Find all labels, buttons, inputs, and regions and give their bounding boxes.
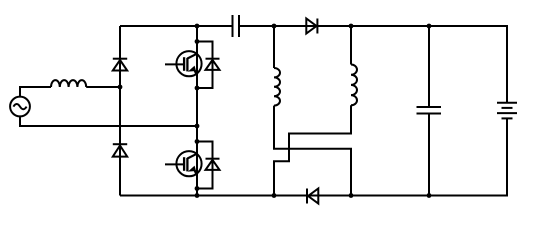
node: bottom rail / winding return right: [349, 193, 354, 198]
battery B1: [497, 102, 517, 104]
node: bottom rail / winding return left: [272, 193, 277, 198]
diode D4 (antiparallel of Q2): [206, 158, 220, 160]
node: top rail / winding L1: [272, 24, 277, 29]
wire: inductor to bridge node: [86, 86, 120, 88]
wire: Q1 freewheel branch: [197, 42, 213, 89]
diode D3 (antiparallel of Q1): [206, 58, 220, 60]
wire: ac source bottom lead to transistor leg: [20, 116, 197, 126]
node: Q2 emitter branch: [195, 186, 200, 191]
wire: left bridge leg (vertical): [119, 26, 121, 196]
node: Q2 collector branch: [195, 139, 200, 144]
wire: ac source top lead: [20, 87, 51, 97]
node: top rail / transistor leg: [195, 24, 200, 29]
diode D1 (upper left bridge): [113, 58, 127, 60]
capacitor C1 (series, top rail): [232, 15, 234, 37]
wire: transistor leg (vertical): [196, 26, 198, 196]
wire: Q2 freewheel branch: [197, 142, 213, 189]
capacitor C2 (output): [428, 26, 430, 107]
node: Q1 collector branch: [195, 39, 200, 44]
wire: top rail right segment: [239, 26, 507, 103]
inductor Lin (horizontal, 4 humps): [51, 80, 86, 87]
node: bottom rail / capacitor C2: [427, 193, 432, 198]
node: top rail / winding L2: [349, 24, 354, 29]
wire: bottom rail: [120, 118, 507, 195]
node: ac bottom / transistor leg: [195, 124, 200, 129]
ac source V1: [10, 97, 30, 117]
transistor Q2 (lower IGBT): [176, 151, 201, 176]
diode D6 (bottom rail, pointing left): [308, 189, 318, 204]
node: top rail / capacitor C2: [427, 24, 432, 29]
diode D2 (lower left bridge): [113, 143, 127, 145]
transistor Q1 (upper IGBT): [176, 51, 201, 76]
winding L2 (right vertical) with crossover to bottom left: [350, 26, 352, 65]
node: bridge left leg / ac top: [118, 85, 123, 90]
node: Q1 emitter branch: [195, 86, 200, 91]
winding L1 (left vertical) with crossover to bottom right: [273, 26, 275, 68]
node: transistor leg / bottom rail: [195, 193, 200, 198]
wire: top rail left segment: [120, 25, 233, 27]
diode D5 (top rail, pointing right): [306, 19, 316, 34]
